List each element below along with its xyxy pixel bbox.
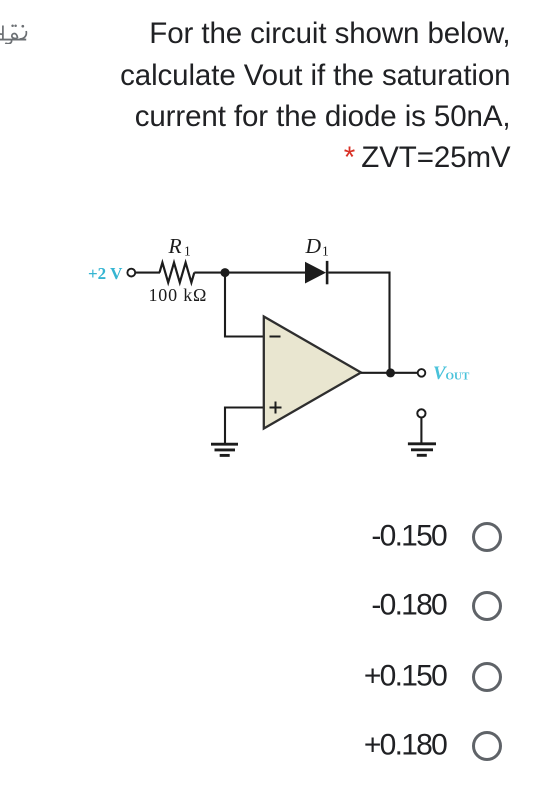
wire terminal to ground xyxy=(420,418,422,443)
option 4 xyxy=(0,731,547,761)
resistor R1 xyxy=(160,263,195,283)
output junction xyxy=(386,368,395,377)
plus sign xyxy=(270,402,282,414)
option 3 xyxy=(0,662,547,692)
output terminal xyxy=(418,369,426,377)
wire node A to diode xyxy=(225,272,305,274)
svg-text:R: R xyxy=(168,234,182,258)
svg-text:1: 1 xyxy=(322,244,329,259)
op-amp U1 xyxy=(264,317,361,429)
diode D1 xyxy=(305,262,326,284)
question title xyxy=(11,13,511,179)
input terminal xyxy=(127,269,135,277)
option 2 xyxy=(0,591,547,621)
svg-text:100 kΩ: 100 kΩ xyxy=(149,285,208,305)
svg-text:+2 V: +2 V xyxy=(88,264,123,283)
option 1 xyxy=(0,522,547,552)
reference terminal xyxy=(417,409,425,417)
svg-text:D: D xyxy=(305,234,322,258)
svg-text:1: 1 xyxy=(184,244,191,259)
minus sign xyxy=(270,336,281,338)
ground (right) xyxy=(408,442,436,445)
wire op-amp output xyxy=(361,372,418,374)
wire ground to noninverting input xyxy=(225,408,263,444)
wire R1 to node A xyxy=(194,272,225,274)
points label (Arabic) xyxy=(0,19,28,44)
node A junction xyxy=(221,268,230,277)
ground (left) xyxy=(211,443,238,446)
wire node A down to inverting input xyxy=(225,273,263,337)
wire input to R1 xyxy=(135,272,160,274)
svg-text:OUT: OUT xyxy=(446,371,471,383)
wire diode to feedback corner xyxy=(328,273,389,373)
